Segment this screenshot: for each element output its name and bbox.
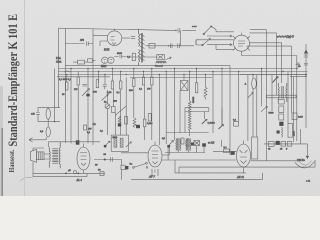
coupling cap dark V3 — [76, 140, 80, 144]
pot arrow P2 — [248, 93, 254, 99]
resistor R5 — [93, 80, 99, 94]
arrow a1 — [230, 35, 232, 37]
wire drop x253 — [253, 75, 257, 138]
pot arrow P4 — [202, 119, 215, 124]
wire drop x78.2 — [77, 72, 79, 144]
pot arrow left of box — [104, 141, 110, 147]
capacitor C8 dark — [86, 94, 89, 97]
svg-text:Drossel: Drossel — [155, 65, 163, 68]
wire drop x151.8 — [151, 69, 153, 141]
resistor R14 oval — [46, 108, 50, 122]
resistor R4 — [74, 77, 79, 91]
wire right of V5 — [251, 160, 306, 162]
capacitor C13 dark — [202, 143, 206, 146]
tube V4 bottom stubs — [152, 169, 158, 176]
node j3 — [54, 121, 55, 122]
power cord — [295, 144, 315, 168]
wire bundle L3 — [196, 40, 234, 45]
fold line left margin — [24, 0, 26, 196]
box resistor mid1 — [125, 117, 128, 125]
switch S1a — [203, 26, 212, 35]
wire hop arc — [64, 71, 70, 72]
wire drop x297 — [296, 69, 298, 142]
node j2 — [305, 76, 306, 77]
tube V5 rectifier AZ11 — [236, 141, 251, 179]
dark blob R16b — [118, 124, 121, 127]
wire into V4 — [121, 152, 148, 154]
svg-text:Hanseat.: Hanseat. — [9, 149, 16, 172]
wire drop x222 — [220, 69, 223, 148]
variable capacitor CV1 — [181, 81, 189, 91]
coil pair A — [176, 138, 181, 151]
svg-text:a·e·s: a·e·s — [192, 25, 197, 28]
resistor R7 — [117, 81, 122, 94]
wire drop x120.7 — [120, 72, 122, 136]
output transformer TR1 — [49, 142, 60, 169]
wire tube plate to IFT — [122, 37, 130, 39]
resistor R1 — [127, 53, 135, 60]
svg-text:5000: 5000 — [269, 112, 275, 115]
wire row1 extension — [182, 29, 196, 31]
svg-text:0,05: 0,05 — [107, 91, 112, 94]
bus line 2 — [59, 71, 308, 73]
tall resistor box B — [288, 123, 296, 137]
resistor R3 — [62, 82, 68, 96]
node row1 — [175, 30, 176, 31]
bus line 3 — [59, 74, 241, 76]
wire top of transformer — [49, 142, 101, 147]
tube V1b dual diode EB11 — [100, 57, 114, 68]
svg-text:30000: 30000 — [192, 96, 195, 103]
diagonal wire — [115, 78, 126, 116]
box resistor mid2 — [148, 114, 151, 122]
wire drop x213 — [212, 72, 214, 134]
wire drop x238.6 — [239, 72, 248, 142]
trimmer cap with arrow — [82, 84, 89, 96]
box component K4 — [121, 160, 128, 180]
wire right L-corner 3 — [250, 43, 282, 83]
IF transformer T1 — [139, 29, 145, 66]
wire bottom bus left lower — [33, 173, 87, 176]
wire under cluster2 — [165, 146, 205, 161]
label dark speck — [113, 100, 117, 102]
cap on bottom bus — [98, 169, 104, 176]
resistor R17 — [143, 119, 153, 127]
wire bundle L2 — [207, 35, 232, 37]
antenna input arrow — [29, 137, 46, 142]
wire x180 vertical — [179, 91, 181, 134]
choke L2 — [155, 61, 167, 67]
capacitor C11 dark — [136, 125, 140, 128]
resistor R11 — [192, 83, 198, 103]
left scan-edge shadow — [0, 86, 3, 196]
wire right L-corner 5 — [242, 54, 297, 69]
fuse box F2 — [280, 142, 286, 151]
left small box w label — [84, 125, 93, 131]
wire stub — [290, 76, 306, 78]
wire right L-corner 2 — [250, 33, 277, 95]
wire drop x159.3 — [158, 75, 160, 146]
wire right rail — [305, 44, 307, 128]
wires mid h2 — [185, 111, 209, 113]
svg-text:a+e+s+(Sp)·U: a+e+s+(Sp)·U — [277, 36, 295, 39]
scan edge dark line — [2, 128, 4, 196]
wire drop x261.5 — [261, 69, 263, 107]
wire drop x88 — [87, 69, 89, 144]
tube V4 AF7 — [148, 142, 162, 179]
wire drop x196.5 — [196, 69, 198, 83]
box filter block — [157, 54, 165, 59]
bus line 3 thick right — [240, 74, 306, 76]
arrow a2 — [230, 44, 232, 46]
arrow pointer — [166, 57, 172, 60]
wire drop x126.2 — [125, 106, 127, 135]
box component K3 — [233, 119, 239, 127]
svg-text:Gl: Gl — [268, 149, 271, 151]
svg-text:2x30: 2x30 — [298, 116, 304, 119]
mains dark item — [276, 141, 280, 145]
jack J1 — [65, 169, 79, 175]
wire drop x184 — [183, 75, 185, 81]
capacitor C7 — [103, 85, 107, 90]
bus line 5 partial — [130, 77, 212, 79]
wire drop x98.6 — [98, 72, 100, 84]
wire drop x133.8 — [133, 69, 135, 118]
resistor R24 — [224, 146, 230, 153]
box above bus B2 — [88, 59, 96, 62]
pot arrow P6 — [261, 106, 267, 112]
wire speaker links — [33, 148, 49, 173]
wire bottom right bus1 — [162, 159, 236, 161]
cluster enclosure box — [111, 135, 128, 151]
svg-text:0,3M: 0,3M — [147, 122, 153, 125]
column stack box3 — [279, 114, 284, 120]
faint corner squiggle — [20, 177, 33, 181]
resistor R10 — [147, 77, 153, 91]
svg-text:Standard-Empfänger K 101 E: Standard-Empfänger K 101 E — [5, 14, 20, 147]
svg-text:0,1MΩ: 0,1MΩ — [208, 122, 215, 125]
bus line 1 — [59, 68, 297, 70]
column dark blob — [279, 122, 283, 126]
wire drop x66.8 — [66, 75, 68, 83]
svg-text:2W: 2W — [74, 88, 78, 91]
wire drop x166.2 — [165, 72, 167, 145]
wire left rail to bottom — [54, 69, 56, 122]
wire lower h — [213, 150, 236, 152]
pot blob P3 — [273, 77, 279, 83]
wire drop x205.5 — [205, 75, 207, 88]
svg-text:AL 4: AL 4 — [76, 179, 83, 182]
wire right top — [267, 95, 296, 98]
wire into box — [130, 56, 157, 58]
svg-text:0,1 5000 0,1: 0,1 5000 0,1 — [59, 78, 72, 81]
box with X — [194, 141, 200, 146]
resistor R13 oval — [245, 78, 257, 89]
wires mid h1 — [185, 107, 209, 109]
tube V2 octode — [233, 33, 250, 54]
wire row2 — [146, 45, 195, 47]
resistor R20 in box — [120, 138, 123, 147]
mains row wire — [264, 143, 307, 145]
wire drop x189.7 — [189, 72, 191, 102]
capacitor ticks row2 a — [170, 44, 172, 49]
capacitor C14 dark — [231, 151, 235, 154]
resistor R16 zigzag — [133, 118, 136, 128]
capacitor C10 — [31, 108, 40, 122]
column stack box2 — [279, 106, 284, 113]
wire drop x105 — [105, 75, 108, 136]
wire bundle L5 — [216, 45, 234, 49]
svg-text:4000: 4000 — [293, 130, 296, 136]
wire mid bottom bus — [94, 159, 122, 161]
cluster mid-left boxes — [181, 138, 194, 146]
fuse box F3 — [286, 142, 292, 151]
wires mid v — [185, 108, 222, 133]
antenna arrow symbol — [304, 50, 308, 58]
wire drop x174.5 — [174, 69, 176, 141]
svg-text:5000: 5000 — [117, 52, 123, 55]
capacitor ticks row2 b — [178, 44, 180, 49]
speaker LS — [30, 149, 44, 162]
capacitor ticks row1 — [178, 28, 180, 32]
wire input bottom — [38, 121, 60, 123]
box component K2 — [112, 107, 116, 113]
wire long bottom — [131, 173, 263, 180]
wire drop x283b — [288, 72, 301, 144]
box component on row2 — [149, 43, 155, 48]
switch S1b — [202, 38, 211, 45]
wire left rail A — [58, 28, 60, 107]
switch S2 — [133, 162, 148, 168]
capacitor C2 — [114, 52, 126, 58]
wire bundle L4 — [207, 44, 232, 46]
fuse box F1 — [268, 142, 274, 151]
wire drop x71 — [70, 69, 72, 144]
resistor R19 in box — [114, 138, 117, 147]
node dot — [104, 159, 106, 161]
tube V3 output AL4 — [76, 143, 91, 182]
wire to bundle — [196, 40, 203, 45]
svg-text:ECH: ECH — [103, 49, 109, 52]
column coil — [282, 127, 283, 137]
pot arrow P1 — [102, 94, 109, 100]
wire right L-corner 4 — [247, 46, 292, 113]
pot arrow right of box — [126, 142, 132, 148]
pot arrow cluster2 — [167, 141, 173, 148]
capacitor C6 — [298, 64, 308, 69]
wire drop x112 — [112, 69, 115, 136]
wire rail at x93 — [92, 29, 94, 145]
wire input top — [38, 107, 60, 109]
trimmer circle TC1 — [105, 104, 110, 109]
svg-text:Abst.: Abst. — [56, 60, 62, 63]
wire top bus — [59, 28, 177, 30]
bus line 6 partial — [57, 76, 110, 78]
resistor R15 oval — [40, 122, 50, 137]
svg-text:A: A — [245, 83, 247, 86]
svg-text:ca 6,3: ca 6,3 — [208, 142, 215, 145]
resistor R12 zigzag — [204, 87, 207, 100]
pot arrow P5 — [218, 125, 223, 130]
wire drop x143.5 — [144, 72, 145, 141]
wire mid h3 — [166, 132, 209, 134]
resistor R6 — [107, 81, 114, 94]
resistor R9 — [139, 77, 145, 91]
node row2 — [168, 45, 169, 46]
wire bundle L1 — [211, 26, 234, 32]
capacitor C3 — [131, 37, 135, 39]
vertical link rows — [180, 30, 182, 45]
svg-text:1W: 1W — [147, 88, 151, 91]
labeled box right — [292, 113, 304, 120]
rect column right — [252, 137, 258, 159]
wire left rail B — [64, 29, 66, 143]
wire right L-corner 1 — [250, 30, 266, 161]
resistor R18 long zigzag — [188, 101, 191, 136]
coil pair B — [186, 138, 191, 151]
wire bottom right bus2 — [179, 160, 315, 167]
box above bus B1 — [73, 60, 87, 64]
tube V1 triode-hexode — [93, 29, 122, 52]
IF transformer T2 — [278, 83, 287, 102]
capacitor ticks bottom — [111, 157, 113, 161]
node bus3 end — [305, 74, 307, 76]
wire drop x272 — [271, 75, 273, 111]
wire bottom bus left — [33, 172, 105, 174]
column stack box1 — [278, 100, 284, 105]
zigzag R16b — [118, 116, 121, 125]
capacitor C9 — [296, 63, 301, 65]
bus line 4 partial — [65, 65, 230, 67]
svg-text:AZ 11: AZ 11 — [236, 175, 245, 179]
capacitor C1 — [65, 39, 93, 46]
column dark blob2 — [277, 131, 280, 134]
wire bottom right bus3 — [175, 160, 246, 173]
svg-text:a 21: a 21 — [306, 180, 311, 183]
wire right of V4 — [162, 147, 170, 155]
wire drop x230 — [229, 66, 231, 155]
node dots on buses — [66, 68, 298, 75]
resistor R8 — [129, 79, 135, 93]
